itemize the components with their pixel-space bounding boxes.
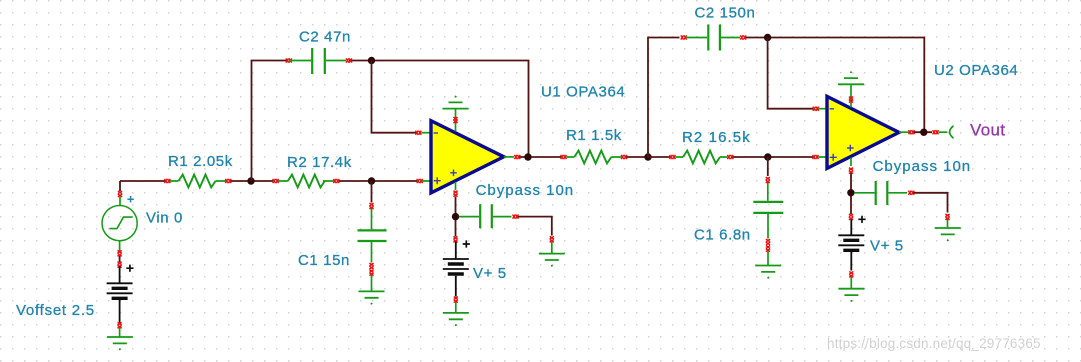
wire C2 feedback loop stage 2 bbox=[648, 38, 924, 158]
U2 output bbox=[899, 131, 910, 133]
ground of Cbypass stage2 bbox=[935, 228, 961, 241]
svg-text:U2 OPA364: U2 OPA364 bbox=[934, 62, 1018, 79]
battery V+ 5 stage 1 bbox=[455, 242, 457, 260]
wire C2 feedback loop stage 1 bbox=[252, 61, 529, 182]
ground below C1 6.8n bbox=[755, 266, 781, 279]
node B junction dot bbox=[644, 153, 651, 160]
svg-text:Voffset 2.5: Voffset 2.5 bbox=[16, 302, 95, 319]
battery Voffset 2.5 bbox=[119, 266, 121, 283]
node C2-2 right junction dot bbox=[764, 34, 771, 41]
voltage source Vin (VG1) bbox=[102, 197, 137, 252]
svg-text:R2 17.4k: R2 17.4k bbox=[287, 154, 352, 171]
svg-text:U1 OPA364: U1 OPA364 bbox=[541, 84, 625, 101]
svg-text:C1 6.8n: C1 6.8n bbox=[694, 226, 751, 243]
resistor R1 leads bbox=[170, 180, 432, 182]
svg-text:C2 47n: C2 47n bbox=[299, 29, 351, 46]
ground below Voffset bbox=[119, 328, 121, 337]
svg-text:R1 2.05k: R1 2.05k bbox=[168, 153, 233, 170]
node stage2 C1 junction dot bbox=[764, 153, 771, 160]
ground below C1 15n bbox=[359, 291, 385, 304]
capacitor C1 15n bbox=[371, 181, 373, 203]
capacitor C2 47n bbox=[286, 58, 292, 62]
U2 V+ pin down bbox=[850, 158, 852, 167]
svg-text:Cbypass 10n: Cbypass 10n bbox=[476, 182, 575, 199]
ground above U2 (V- pin) bbox=[850, 85, 852, 107]
svg-text:C2 150n: C2 150n bbox=[695, 5, 756, 22]
ground below battery V+5 stage2 bbox=[838, 289, 864, 302]
svg-text:V+ 5: V+ 5 bbox=[870, 237, 904, 254]
ground below battery V+5 stage1 bbox=[443, 313, 469, 326]
node U2 supply junction dot bbox=[847, 189, 854, 196]
plus mark of Vin bbox=[127, 196, 133, 202]
resistor R1 2.05k bbox=[179, 175, 216, 188]
output terminal Vout bbox=[950, 126, 953, 137]
U1 V+ pin down bbox=[455, 182, 457, 190]
wire Vin top to R1 (main line stage 1) bbox=[120, 180, 417, 182]
node U1 supply junction dot bbox=[452, 213, 459, 220]
resistor R1 1.5k bbox=[574, 151, 611, 164]
battery V+ 5 stage 2 bbox=[850, 220, 852, 236]
svg-text:V+ 5: V+ 5 bbox=[473, 265, 507, 282]
wire to inverting input U1 bbox=[372, 61, 418, 133]
node U2 output junction dot bbox=[920, 129, 927, 136]
wire between Vin and Voffset bbox=[119, 256, 121, 262]
ground above U1 (V- pin) bbox=[455, 110, 457, 132]
ground of Cbypass stage1 bbox=[539, 254, 565, 267]
node stage1 +input junction dot bbox=[368, 177, 375, 184]
wire Vin vertical drop bbox=[119, 181, 121, 191]
svg-text:C1 15n: C1 15n bbox=[298, 252, 350, 269]
svg-text:Vout: Vout bbox=[970, 120, 1005, 139]
op-amp U2 OPA364 bbox=[827, 96, 899, 168]
svg-text:Vin 0: Vin 0 bbox=[146, 209, 183, 226]
pin marks Vin vertical bbox=[118, 191, 122, 197]
wire to inverting input U2 bbox=[768, 38, 813, 109]
U1 output bbox=[504, 156, 514, 158]
node C2-right junction dot bbox=[368, 57, 375, 64]
resistor R2 17.4k bbox=[288, 175, 325, 188]
svg-text:Cbypass 10n: Cbypass 10n bbox=[873, 158, 972, 175]
capacitor C1 6.8n bbox=[767, 157, 769, 176]
svg-text:R2 16.5k: R2 16.5k bbox=[682, 129, 751, 146]
op-amp U1 OPA364 bbox=[431, 121, 504, 193]
svg-text:R1 1.5k: R1 1.5k bbox=[566, 127, 622, 144]
pin marks main line stage1 bbox=[164, 179, 170, 183]
capacitor C2 150n bbox=[681, 35, 687, 39]
node A junction dot bbox=[247, 177, 254, 184]
resistor R2 16.5k bbox=[683, 151, 720, 164]
node U1 output junction dot bbox=[524, 153, 531, 160]
svg-text:https://blog.csdn.net/qq_29776: https://blog.csdn.net/qq_29776365 bbox=[827, 336, 1041, 351]
